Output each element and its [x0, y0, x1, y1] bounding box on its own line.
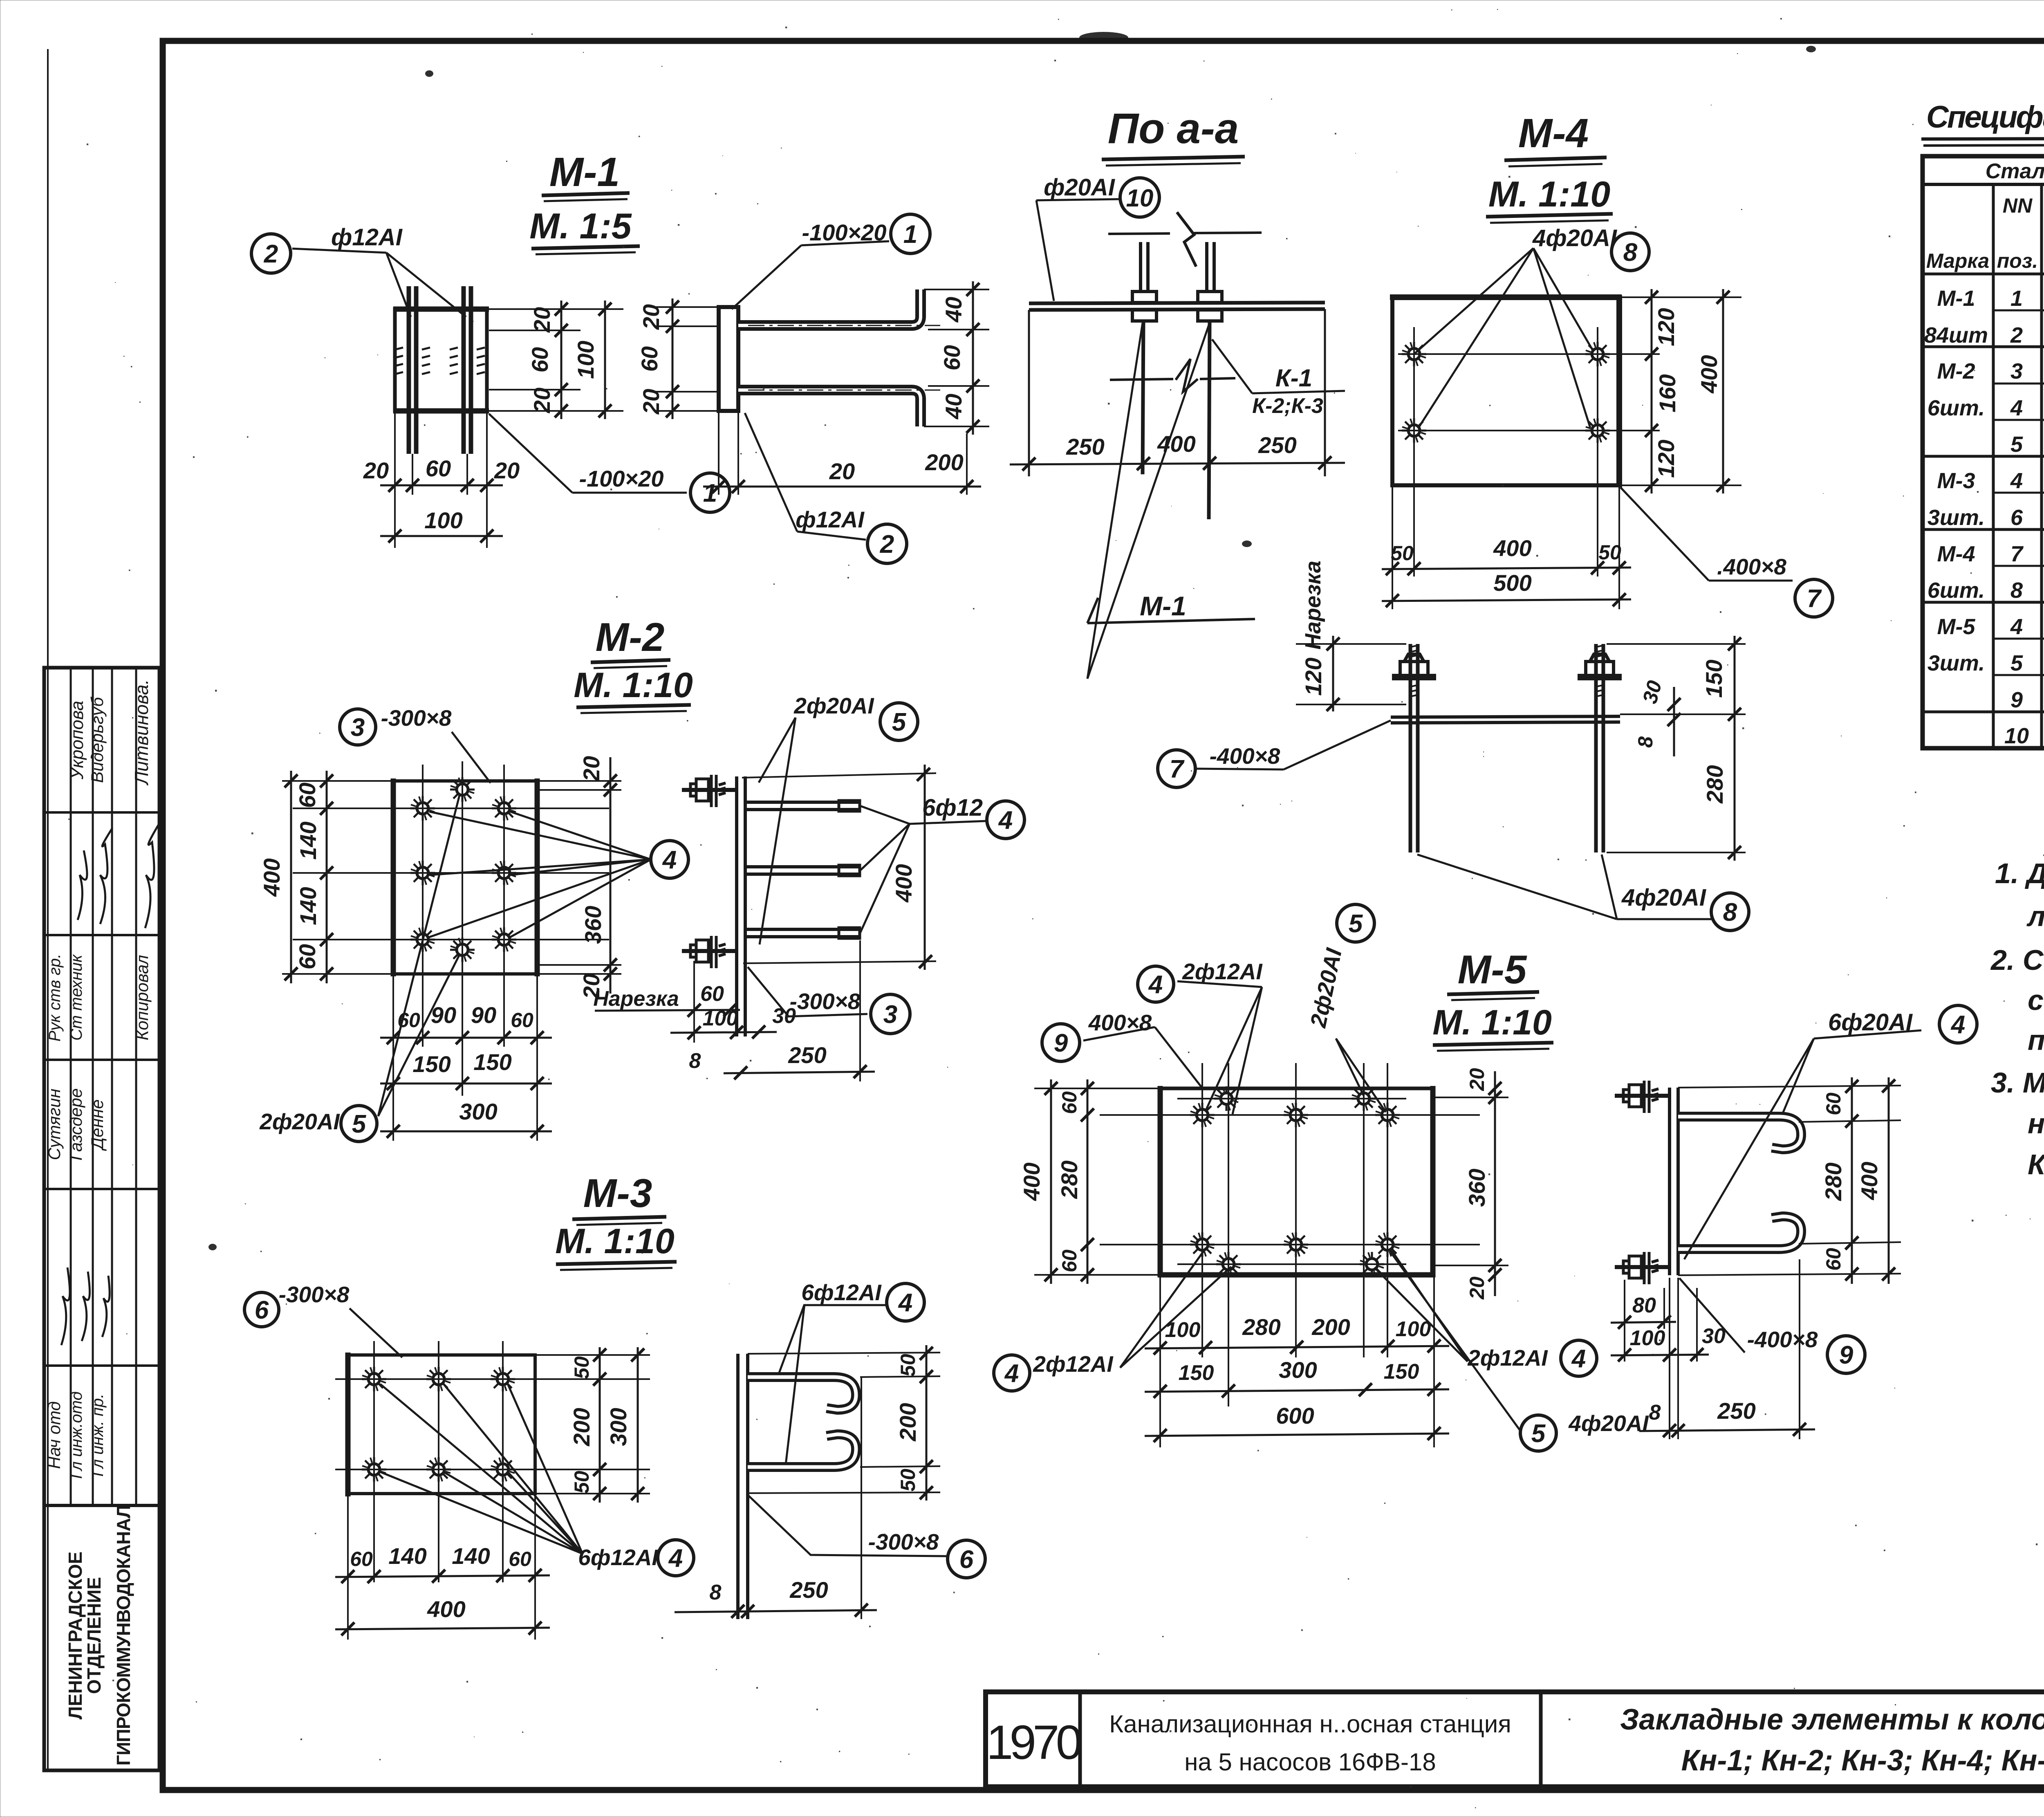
- svg-text:Канализационная н..осная ста: Канализационная н..осная станция: [1109, 1710, 1511, 1738]
- svg-text:5: 5: [2010, 651, 2023, 675]
- svg-text:К-1: К-1: [1275, 364, 1312, 392]
- svg-text:Марка: Марка: [1926, 249, 1989, 272]
- svg-text:9: 9: [2010, 688, 2023, 712]
- svg-text:120: 120: [1653, 440, 1679, 478]
- M-5 side: hooked rods: [1678, 1117, 1801, 1149]
- svg-text:150: 150: [473, 1049, 511, 1075]
- svg-text:2: 2: [2010, 323, 2023, 348]
- side dim 400: [742, 773, 936, 778]
- left dim 400: [290, 771, 292, 983]
- svg-text:40: 40: [941, 297, 966, 323]
- svg-text:2: 2: [264, 240, 278, 268]
- svg-text:ОТДЕЛЕНИЕ: ОТДЕЛЕНИЕ: [83, 1577, 105, 1694]
- M-4 side: anchor rods poz.8: [1410, 644, 1603, 852]
- hole centerlines: [373, 1341, 375, 1582]
- svg-text:Сталь горячекатаная класса: Сталь горячекатаная класса А-I круглая и…: [1986, 159, 2044, 183]
- bottom dims 100/280/200/100: [1159, 1277, 1161, 1447]
- svg-text:50: 50: [896, 1469, 919, 1492]
- nuts and washers on rods: [1392, 654, 1622, 679]
- leader -400x8 poz.7 left: [1158, 750, 1195, 787]
- svg-text:60: 60: [294, 944, 320, 969]
- svg-text:-300×8: -300×8: [790, 989, 861, 1014]
- svg-text:140: 140: [452, 1543, 490, 1569]
- svg-text:6шт.: 6шт.: [1927, 578, 1985, 603]
- M-3 side: hooked rods poz.4: [748, 1377, 856, 1410]
- svg-text:100: 100: [1630, 1326, 1665, 1350]
- svg-text:ф20АI: ф20АI: [1044, 174, 1116, 201]
- svg-text:300: 300: [605, 1408, 631, 1446]
- side dims 60/280/60 and 400: [1678, 1086, 1901, 1088]
- svg-text:-300×8: -300×8: [868, 1529, 939, 1555]
- svg-text:4: 4: [1571, 1345, 1586, 1373]
- M-1 side: left dims 20/60/20: [654, 306, 719, 308]
- svg-text:4: 4: [668, 1544, 683, 1572]
- svg-text:Нарезка: Нарезка: [1301, 561, 1325, 650]
- svg-text:4ф20АI: 4ф20АI: [1532, 225, 1618, 251]
- svg-text:100: 100: [424, 507, 462, 533]
- svg-text:500: 500: [1493, 570, 1531, 596]
- svg-text:80: 80: [1632, 1294, 1656, 1317]
- svg-text:150: 150: [1179, 1361, 1214, 1385]
- right dim 300: [637, 1347, 639, 1503]
- svg-text:50: 50: [1391, 542, 1414, 565]
- svg-text:20: 20: [494, 458, 520, 483]
- callout -300x8 poz.3: [340, 709, 376, 745]
- svg-text:на опалубочных чертежах колонн: на опалубочных чертежах колонн: [2028, 1108, 2044, 1140]
- svg-text:20: 20: [638, 389, 664, 415]
- svg-text:5: 5: [2010, 432, 2023, 457]
- svg-text:400: 400: [1856, 1162, 1882, 1200]
- svg-text:50: 50: [1598, 541, 1621, 564]
- callout 6ф12 poz.4: [860, 806, 986, 933]
- svg-text:М-4: М-4: [1518, 110, 1589, 156]
- svg-text:1: 1: [703, 479, 717, 507]
- leader fan to anchors: [1414, 248, 1533, 354]
- title block outer box: [986, 1692, 2044, 1787]
- svg-text:Газсдере: Газсдере: [66, 1088, 85, 1161]
- title block dividers: [1078, 1692, 1082, 1787]
- svg-text:4: 4: [2010, 396, 2023, 420]
- svg-text:Гл инж.отд: Гл инж.отд: [67, 1391, 85, 1479]
- svg-text:400: 400: [891, 864, 917, 902]
- svg-text:ф12АI: ф12АI: [331, 224, 403, 251]
- M-3 side: plate: [736, 1354, 740, 1619]
- svg-text:Укропова: Укропова: [67, 701, 87, 780]
- dims 80 / 100 / 30: [1624, 1280, 1625, 1362]
- callout 400x8 poz.9: [1042, 1024, 1080, 1061]
- svg-text:4: 4: [1004, 1359, 1019, 1388]
- side dims 50/200/50: [748, 1353, 940, 1354]
- right dims 50/200/50: [599, 1347, 601, 1503]
- svg-text:60: 60: [1822, 1092, 1845, 1115]
- leader -100x20 poz.1: [489, 414, 572, 493]
- svg-text:140: 140: [295, 887, 321, 925]
- right dims 20/360/20: [537, 780, 621, 782]
- svg-text:8: 8: [2010, 578, 2023, 603]
- svg-text:на 5 насосов 16ФВ-18: на 5 насосов 16ФВ-18: [1184, 1748, 1436, 1776]
- M-2 side: rods poz.4: [745, 802, 860, 937]
- svg-text:100: 100: [1396, 1317, 1431, 1341]
- side dims 40/60/40: [924, 289, 989, 426]
- svg-text:7: 7: [2010, 542, 2024, 566]
- svg-text:NN: NN: [2003, 194, 2033, 217]
- spec table outer box: [1923, 156, 2044, 748]
- svg-text:ЛЕНИНГРАДСКОЕ: ЛЕНИНГРАДСКОЕ: [65, 1552, 86, 1720]
- svg-text:М-5: М-5: [1937, 615, 1976, 639]
- M-5 side: top bolt poz.5: [1615, 1081, 1670, 1113]
- svg-text:150: 150: [1701, 660, 1727, 698]
- svg-text:300: 300: [1279, 1357, 1317, 1383]
- svg-text:Копировал: Копировал: [132, 955, 152, 1041]
- nuts above slab: [1132, 292, 1156, 303]
- svg-text:40: 40: [941, 394, 966, 419]
- svg-text:3: 3: [2010, 359, 2023, 384]
- svg-text:М. 1:5: М. 1:5: [529, 206, 632, 246]
- callout -300x8 poz.6: [244, 1292, 279, 1327]
- bottom dimension 20/60/20: [395, 411, 487, 548]
- dim line 250/400/250: [1010, 463, 1345, 464]
- svg-text:10: 10: [2004, 724, 2029, 748]
- data rows: [1924, 286, 2044, 748]
- bottom dim 400: [335, 1628, 550, 1629]
- svg-text:360: 360: [1464, 1169, 1490, 1207]
- svg-text:Рук ств гр.: Рук ств гр.: [46, 953, 64, 1041]
- svg-text:120: 120: [1653, 308, 1679, 346]
- svg-text:.400×8: .400×8: [1717, 554, 1786, 579]
- svg-text:М-3: М-3: [1937, 469, 1975, 493]
- svg-text:60: 60: [1058, 1249, 1081, 1272]
- callout 2ф20АI poz.5 slanted: [1337, 904, 1374, 942]
- svg-text:200: 200: [895, 1403, 921, 1441]
- break zigzag: [1177, 212, 1196, 267]
- group boundary lines: [1923, 345, 2044, 348]
- right dimension 100: [604, 301, 606, 419]
- bottom dims 50/400/50: [1392, 485, 1393, 609]
- anchor rods above slab: [1139, 242, 1142, 292]
- rod centerlines: [748, 325, 940, 326]
- svg-text:М-2: М-2: [1937, 359, 1975, 384]
- svg-text:-300×8: -300×8: [381, 705, 452, 731]
- svg-text:60: 60: [700, 982, 724, 1006]
- side bottom dims 8 / 250: [1669, 1278, 1670, 1439]
- svg-text:60: 60: [294, 783, 320, 808]
- svg-text:50: 50: [896, 1354, 919, 1377]
- svg-text:20: 20: [638, 304, 664, 330]
- svg-text:Кн-1; Кн-2; Кн-3; Кн-4; Кн-5.: Кн-1; Кн-2; Кн-3; Кн-4; Кн-5.: [1681, 1744, 2044, 1777]
- svg-text:М-1: М-1: [1140, 591, 1186, 621]
- hole centerlines: [422, 765, 424, 1047]
- side bottom dim 20/200: [719, 411, 967, 495]
- svg-text:20: 20: [578, 756, 604, 782]
- leaders to callout 4: [380, 1384, 583, 1554]
- svg-text:250: 250: [789, 1577, 828, 1603]
- svg-text:20: 20: [1466, 1276, 1488, 1300]
- svg-text:60: 60: [1058, 1091, 1081, 1114]
- svg-text:Гл инж. пр.: Гл инж. пр.: [89, 1393, 107, 1476]
- M-4 plan plate -400x8: [1392, 297, 1619, 485]
- svg-text:6: 6: [2010, 505, 2023, 530]
- svg-text:250: 250: [1717, 1398, 1755, 1424]
- svg-text:2ф12АI: 2ф12АI: [1467, 1345, 1548, 1371]
- svg-text:По а-а: По а-а: [1108, 105, 1239, 153]
- stamp signatures row 1: [78, 850, 87, 920]
- rod thread end caps: [839, 801, 860, 811]
- svg-text:20: 20: [529, 388, 555, 413]
- svg-text:140: 140: [295, 821, 321, 859]
- svg-text:6ф12: 6ф12: [922, 794, 983, 821]
- callout 4ф20АI poz.5 right: [1520, 1415, 1556, 1451]
- stamp signatures row 2: [61, 1267, 70, 1345]
- M-1 side: bent rod top: [738, 289, 921, 325]
- svg-text:9: 9: [1839, 1341, 1853, 1369]
- svg-text:20: 20: [363, 458, 389, 483]
- svg-text:Литвинова.: Литвинова.: [131, 679, 152, 785]
- svg-text:Ст техник: Ст техник: [67, 954, 85, 1041]
- bottom dimension 100: [380, 535, 503, 537]
- slab double line: [1029, 303, 1325, 303]
- M-3 plan plate -300x8: [348, 1355, 535, 1494]
- svg-text:2ф20АI: 2ф20АI: [1305, 945, 1347, 1030]
- holes top rows: [1214, 1086, 1239, 1111]
- svg-text:М-4: М-4: [1937, 542, 1975, 566]
- leader 400x8 poz.7: [1620, 487, 1709, 581]
- svg-text:200: 200: [1311, 1314, 1350, 1340]
- bottom dims 60/90/90/60: [392, 976, 394, 1141]
- M-1 side: bent rod bottom: [738, 390, 921, 426]
- svg-text:сталью выполнять швами с ширин: сталью выполнять швами с шириной: [2028, 984, 2044, 1016]
- plate -400x8 side: [1391, 716, 1620, 717]
- break zigzag lower: [1176, 359, 1198, 392]
- column top break line: [1108, 233, 1170, 234]
- svg-text:4: 4: [1148, 971, 1163, 999]
- bottom dims 60/140/140/60: [347, 1496, 349, 1640]
- svg-text:60: 60: [350, 1548, 373, 1570]
- svg-text:60: 60: [426, 455, 451, 481]
- svg-text:400: 400: [1493, 535, 1531, 561]
- svg-text:90: 90: [471, 1002, 496, 1028]
- svg-text:5: 5: [1531, 1420, 1546, 1448]
- bottom dims 150/150: [380, 1083, 552, 1085]
- holes ф12 poz.4: [410, 796, 435, 821]
- callout -300x8 poz.3 right: [748, 967, 867, 1016]
- M-1 side: plate end view: [719, 307, 738, 411]
- svg-text:-400×8: -400×8: [1210, 743, 1280, 769]
- svg-text:150: 150: [412, 1051, 450, 1077]
- column lines: [1992, 184, 1995, 748]
- svg-text:4ф20АI: 4ф20АI: [1621, 884, 1707, 911]
- header bottom line: [1923, 273, 2044, 276]
- hole centerlines horizontal: [1100, 1114, 1480, 1116]
- left dims 60/280/60 and 400: [1034, 1088, 1160, 1089]
- extension lines: [1028, 310, 1030, 476]
- callout 2ф12АI poz.4 top: [1138, 966, 1174, 1002]
- svg-text:2. Сварку круглых стержней с л: 2. Сварку круглых стержней с листовой: [1990, 944, 2044, 976]
- svg-text:6ф12АI: 6ф12АI: [578, 1545, 659, 1570]
- svg-text:4: 4: [2010, 469, 2023, 493]
- svg-text:М-1: М-1: [1937, 286, 1975, 311]
- M-1 plan: plate -100x20: [395, 309, 487, 411]
- svg-text:200: 200: [569, 1408, 594, 1446]
- svg-text:листами с АС-1 по АС.-6: листами с АС-1 по АС.-6: [2026, 900, 2044, 932]
- svg-text:К-2;К-3: К-2;К-3: [1252, 394, 1323, 418]
- svg-text:4: 4: [1950, 1011, 1965, 1039]
- anchor centerlines: [1413, 327, 1415, 577]
- right dimension 20/60/20: [489, 309, 623, 411]
- svg-text:100: 100: [573, 341, 598, 379]
- svg-text:280: 280: [1056, 1160, 1082, 1199]
- svg-text:9: 9: [1054, 1029, 1068, 1057]
- bottom dims 150/300/150: [1145, 1389, 1449, 1392]
- svg-text:ф12АI: ф12АI: [796, 507, 865, 532]
- 150/280 dims right: [1607, 643, 1746, 645]
- svg-text:50: 50: [570, 1356, 593, 1379]
- svg-text:Нарезка: Нарезка: [593, 987, 679, 1011]
- svg-text:60: 60: [1822, 1248, 1845, 1271]
- M-5 plan plate -400x8: [1160, 1088, 1433, 1275]
- svg-text:по наружной поверхности в - 8: по наружной поверхности в - 8 мм.: [2028, 1024, 2044, 1056]
- svg-text:60: 60: [637, 346, 662, 372]
- leaders ф12 to callout 4: [429, 812, 651, 937]
- hole centerlines vertical: [1201, 1063, 1203, 1357]
- holes ф20 poz.5: [450, 777, 475, 802]
- holes ф12 poz.4: [362, 1367, 386, 1391]
- M-2 side: bolts poz.5: [682, 775, 737, 968]
- svg-text:60: 60: [511, 1009, 533, 1032]
- svg-text:2: 2: [880, 530, 894, 559]
- header labels: [1926, 191, 2044, 272]
- svg-text:20: 20: [829, 458, 855, 484]
- svg-text:10: 10: [1126, 184, 1154, 212]
- left margin line: [47, 49, 49, 1770]
- svg-text:М. 1:10: М. 1:10: [1488, 174, 1610, 214]
- svg-text:6: 6: [959, 1546, 974, 1574]
- svg-text:Кн-1; Кн-2; Кн-3.: Кн-1; Кн-2; Кн-3.: [2028, 1149, 2044, 1180]
- holes bottom rows: [1190, 1232, 1215, 1257]
- right dims 120/160/120: [1619, 296, 1741, 298]
- svg-text:4ф20АI: 4ф20АI: [1568, 1411, 1649, 1436]
- svg-text:М. 1:10: М. 1:10: [1432, 1003, 1552, 1042]
- svg-text:120: 120: [1300, 657, 1326, 695]
- svg-text:Видерьгуб: Видерьгуб: [87, 697, 107, 783]
- svg-text:М-1: М-1: [549, 149, 620, 195]
- svg-text:3: 3: [883, 1000, 897, 1029]
- thread hatches top: [1410, 645, 1604, 697]
- svg-text:2ф20АI: 2ф20АI: [259, 1109, 340, 1134]
- svg-text:4: 4: [898, 1289, 912, 1317]
- svg-text:60: 60: [939, 345, 965, 370]
- svg-text:7: 7: [1170, 755, 1185, 783]
- svg-text:250: 250: [1066, 434, 1104, 460]
- svg-text:300: 300: [459, 1099, 497, 1124]
- svg-text:-300×8: -300×8: [279, 1282, 350, 1307]
- svg-text:Закладные элементы к колоннам:: Закладные элементы к колоннам:: [1620, 1703, 2044, 1736]
- svg-text:20: 20: [529, 307, 555, 333]
- callout 2ф12АI poz.4 left: [994, 1355, 1030, 1391]
- svg-text:100: 100: [703, 1007, 738, 1030]
- bottom dim 500: [1382, 599, 1631, 601]
- svg-text:84шт: 84шт: [1924, 323, 1988, 348]
- svg-text:60: 60: [509, 1548, 531, 1570]
- svg-text:Нач отд: Нач отд: [45, 1401, 64, 1469]
- right dims 20/360/20: [1433, 1097, 1508, 1098]
- callout -300x8 poz.6 right: [749, 1496, 947, 1556]
- svg-text:160: 160: [1654, 374, 1680, 412]
- leader 2ф20АI poz.5: [378, 795, 459, 1116]
- svg-text:поз.: поз.: [1997, 249, 2038, 272]
- M-2 side: plate: [735, 776, 738, 1036]
- svg-text:400: 400: [1019, 1162, 1044, 1201]
- svg-text:140: 140: [388, 1543, 426, 1569]
- svg-text:8: 8: [1723, 898, 1737, 926]
- right dim 400: [1722, 289, 1724, 494]
- stamp section lines: [44, 811, 159, 814]
- svg-text:1970: 1970: [986, 1716, 1081, 1770]
- svg-text:6ф12АI: 6ф12АI: [801, 1280, 882, 1305]
- svg-text:7: 7: [1807, 585, 1822, 613]
- svg-text:280: 280: [1242, 1314, 1280, 1340]
- svg-text:400: 400: [259, 858, 285, 897]
- svg-text:2ф20АI: 2ф20АI: [793, 693, 874, 718]
- svg-text:20: 20: [1466, 1068, 1488, 1091]
- svg-text:150: 150: [1384, 1360, 1419, 1384]
- svg-text:8: 8: [1649, 1401, 1661, 1424]
- svg-text:4: 4: [998, 806, 1013, 834]
- svg-text:8: 8: [1623, 238, 1638, 267]
- svg-text:Спецификация стали на М-1; М-2: Спецификация стали на М-1; М-2; М-3; М-4…: [1926, 100, 2044, 135]
- svg-text:6шт.: 6шт.: [1927, 396, 1985, 420]
- table title row line: [1923, 183, 2044, 186]
- svg-text:5: 5: [892, 708, 907, 736]
- left dims 60/140/140/60: [282, 780, 393, 782]
- svg-text:М-3: М-3: [583, 1171, 652, 1216]
- svg-text:8: 8: [689, 1049, 701, 1073]
- svg-text:30: 30: [1638, 678, 1666, 706]
- svg-text:4: 4: [662, 846, 677, 874]
- svg-text:1. Данный лист смотреть совмес: 1. Данный лист смотреть совместно с: [1995, 857, 2044, 889]
- M-1 plan: anchor bolt legs poz.2: [407, 286, 411, 454]
- svg-text:М-2: М-2: [596, 615, 665, 660]
- svg-text:4: 4: [2010, 615, 2023, 639]
- svg-text:280: 280: [1702, 765, 1728, 803]
- svg-text:3шт.: 3шт.: [1927, 505, 1985, 530]
- nuts below slab: [1132, 310, 1156, 321]
- anchors poz.8: [1402, 342, 1426, 366]
- svg-text:Денне: Денне: [87, 1099, 107, 1151]
- svg-text:М. 1:10: М. 1:10: [574, 666, 693, 705]
- svg-text:280: 280: [1820, 1162, 1846, 1201]
- svg-text:400: 400: [1696, 355, 1722, 393]
- svg-text:3. Местоположение М-1 и поз. 1: 3. Местоположение М-1 и поз. 10 смотреть: [1991, 1067, 2044, 1099]
- svg-text:-100×20: -100×20: [579, 466, 663, 491]
- svg-text:8: 8: [1634, 736, 1657, 748]
- svg-text:2ф12АI: 2ф12АI: [1033, 1351, 1114, 1377]
- svg-text:ГИПРОКОММУНВОДОКАНАЛ: ГИПРОКОММУНВОДОКАНАЛ: [113, 1505, 134, 1766]
- side bottom dims 8 / 250: [861, 1378, 862, 1619]
- M-5 side: bottom bolt poz.5: [1615, 1252, 1670, 1284]
- svg-text:2ф12АI: 2ф12АI: [1182, 959, 1263, 984]
- svg-text:3шт.: 3шт.: [1927, 651, 1985, 675]
- svg-text:250: 250: [1258, 432, 1296, 458]
- weld marks: [395, 348, 485, 374]
- svg-text:6: 6: [255, 1296, 269, 1324]
- leader lines to M-1 label: [1087, 323, 1143, 679]
- svg-text:8: 8: [710, 1581, 722, 1604]
- svg-text:600: 600: [1276, 1403, 1314, 1429]
- bottom dim 300: [380, 1131, 552, 1133]
- svg-text:360: 360: [580, 906, 606, 944]
- stamp vertical dividers: [70, 668, 72, 1505]
- svg-text:5: 5: [352, 1110, 367, 1138]
